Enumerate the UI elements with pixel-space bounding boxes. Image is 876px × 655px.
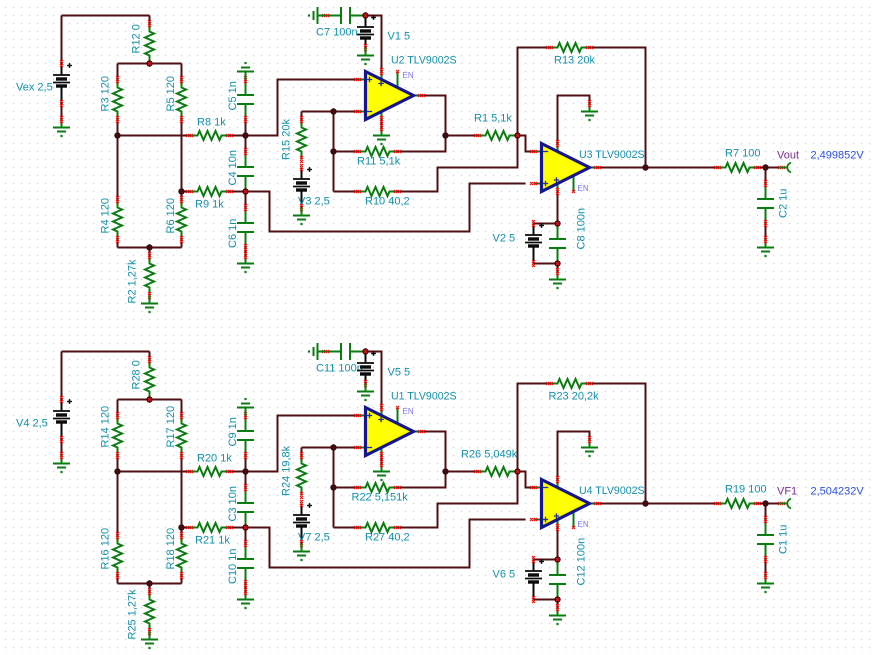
wire segment (245, 120, 247, 136)
wire segment (334, 527, 358, 529)
ground (inverted) (237, 62, 254, 80)
svg-text:R20 1k: R20 1k (197, 453, 232, 465)
svg-text:R28 0: R28 0 (131, 360, 143, 389)
junction bridge bottom node (146, 580, 152, 586)
wire opamp output (422, 96, 446, 136)
junction output filter node (762, 500, 768, 506)
wire segment (245, 248, 247, 256)
wire segment (181, 64, 183, 80)
svg-text:C8 100n: C8 100n (576, 208, 588, 250)
svg-text:C7 100n: C7 100n (316, 27, 358, 39)
resistor R17 (165, 406, 186, 459)
ground (53, 116, 70, 137)
wire segment (301, 448, 303, 456)
wire segment (334, 151, 358, 153)
junction output feedback node (642, 164, 648, 170)
op-amp U3 (530, 140, 645, 195)
op-amp U2 (354, 55, 457, 124)
wire feedback right (590, 48, 646, 168)
junction bridge bottom node (146, 244, 152, 250)
wire supply ground link (558, 432, 590, 480)
resistor R14 (100, 406, 123, 459)
wire feedback riser (333, 448, 335, 528)
wire segment (61, 16, 63, 64)
wire segment (61, 352, 63, 400)
junction filter node A (242, 132, 248, 138)
resistor R19 (714, 484, 767, 509)
junction decoupling top node (554, 220, 560, 226)
wire feedback riser (333, 112, 335, 192)
svg-text:R24 19,8k: R24 19,8k (281, 445, 293, 496)
wire segment (446, 135, 478, 137)
junction bridge right output (178, 188, 184, 194)
capacitor C4 (227, 148, 254, 192)
wire to -input (518, 472, 534, 488)
wire segment (557, 600, 559, 608)
junction second stage -input node (514, 132, 520, 138)
svg-text:C4 10n: C4 10n (227, 150, 239, 185)
capacitor C12 (549, 538, 588, 600)
junction decoupling bottom node (554, 596, 560, 602)
svg-text:R17 120: R17 120 (165, 406, 177, 448)
svg-text:C6 1n: C6 1n (227, 219, 239, 248)
svg-text:Vout: Vout (777, 150, 799, 162)
svg-text:C10 1n: C10 1n (227, 549, 239, 584)
wire bridge top rail (118, 399, 182, 401)
resistor R23 (546, 379, 599, 403)
wire segment (117, 64, 119, 80)
resistor R12 (131, 20, 155, 64)
wire segment (301, 112, 303, 120)
svg-text:R2 1,27k: R2 1,27k (127, 259, 139, 304)
voltage source V4 (16, 396, 72, 443)
capacitor C1 (757, 516, 790, 563)
ground (757, 236, 774, 257)
resistor R1 (474, 113, 518, 141)
wire segment (381, 456, 383, 464)
voltage source Vex (16, 60, 72, 107)
svg-text:C9 1n: C9 1n (227, 417, 239, 446)
op-amp U1 (354, 391, 457, 460)
wire segment (765, 560, 767, 576)
capacitor C2 (757, 180, 790, 227)
capacitor C7 (316, 7, 366, 39)
capacitor C8 (549, 208, 588, 264)
wire segment (230, 527, 246, 529)
svg-text:R27 40,2: R27 40,2 (365, 532, 410, 544)
wire positive supply (366, 16, 382, 72)
svg-text:EN: EN (403, 407, 414, 416)
junction bridge top node (146, 60, 152, 66)
junction supply node (362, 348, 368, 354)
capacitor C3 (227, 484, 254, 528)
wire segment (534, 559, 558, 561)
junction output feedback node (642, 500, 648, 506)
ground (581, 436, 598, 457)
wire bridge bottom rail (118, 247, 182, 249)
wire gain set link (398, 136, 518, 192)
voltage source V2 (493, 220, 544, 267)
wire segment (181, 192, 183, 200)
output pin Vout (777, 150, 864, 173)
wire segment (182, 527, 190, 529)
ground (rotated) (308, 343, 326, 360)
wire segment (334, 487, 358, 489)
svg-text:R4 120: R4 120 (100, 198, 112, 233)
capacitor C5 (227, 76, 254, 123)
resistor R28 (131, 356, 155, 400)
ground (549, 268, 566, 289)
wire segment (557, 192, 559, 224)
svg-text:R10 40,2: R10 40,2 (365, 196, 410, 208)
wire segment (230, 191, 246, 193)
svg-text:C3 10n: C3 10n (227, 486, 239, 521)
wire segment (182, 191, 190, 193)
svg-text:R3 120: R3 120 (100, 76, 112, 111)
svg-text:R13 20k: R13 20k (554, 55, 595, 67)
wire -input rail (302, 111, 358, 113)
resistor R4 (100, 196, 123, 243)
resistor R9 (186, 187, 233, 211)
svg-text:U3 TLV9002S: U3 TLV9002S (579, 149, 645, 161)
ground (581, 100, 598, 121)
wire segment (117, 456, 119, 472)
ground (549, 604, 566, 625)
svg-text:R21 1k: R21 1k (195, 535, 230, 547)
wire battery top to bridge (62, 351, 150, 353)
ground (rotated) (308, 7, 326, 24)
ground (53, 452, 70, 473)
capacitor C6 (227, 204, 254, 251)
op-amp U4 (530, 476, 645, 531)
wire bridge right column (181, 456, 183, 528)
wire segment (534, 223, 558, 225)
wire segment (181, 528, 183, 536)
svg-text:EN: EN (578, 520, 589, 529)
svg-text:2,504232V: 2,504232V (811, 486, 865, 498)
wire bridge right column (181, 120, 183, 192)
ground (357, 48, 374, 66)
svg-text:VF1: VF1 (777, 486, 797, 498)
wire output rail (598, 167, 718, 169)
junction filter node B (242, 524, 248, 530)
svg-text:R12 0: R12 0 (131, 24, 143, 53)
svg-text:C2 1u: C2 1u (778, 189, 790, 218)
wire segment (446, 471, 478, 473)
wire segment (765, 224, 767, 240)
svg-text:EN: EN (403, 71, 414, 80)
ground (141, 632, 158, 650)
resistor R18 (165, 528, 186, 579)
junction filter node A (242, 468, 248, 474)
wire segment (245, 136, 247, 152)
junction -input node (330, 444, 336, 450)
svg-text:V7 2,5: V7 2,5 (298, 532, 330, 544)
wire segment (765, 504, 767, 520)
wire segment (117, 240, 119, 248)
wire to second stage +input (246, 520, 526, 568)
resistor R7 (714, 148, 761, 173)
resistor R2 (127, 252, 155, 304)
junction feedback node (330, 484, 336, 490)
wire segment (149, 248, 151, 256)
resistor R25 (127, 588, 155, 640)
svg-text:U1 TLV9002S: U1 TLV9002S (391, 391, 457, 403)
wire battery minus to ground (61, 440, 63, 456)
junction second stage -input node (514, 468, 520, 474)
junction bridge right output (178, 524, 184, 530)
svg-text:R18 120: R18 120 (165, 528, 177, 570)
svg-text:R15 20k: R15 20k (281, 119, 293, 160)
svg-text:V3 2,5: V3 2,5 (298, 196, 330, 208)
svg-text:C12 100n: C12 100n (576, 538, 588, 586)
resistor R3 (100, 76, 123, 123)
wire bridge left mid rail (118, 471, 190, 473)
svg-text:C1 1u: C1 1u (778, 525, 790, 554)
resistor R13 (546, 43, 595, 67)
capacitor C9 (227, 412, 254, 459)
wire segment (181, 400, 183, 416)
wire segment (181, 576, 183, 584)
wire output rail (598, 503, 718, 505)
voltage source V3 (293, 164, 330, 211)
wire gain set link (398, 472, 518, 528)
ground (293, 544, 310, 562)
svg-text:V6 5: V6 5 (493, 569, 516, 581)
wire segment (398, 136, 446, 152)
wire segment (245, 456, 247, 472)
resistor R15 (281, 116, 307, 163)
wire segment (230, 471, 246, 473)
ground (757, 572, 774, 593)
svg-text:Vex 2,5: Vex 2,5 (16, 82, 53, 94)
wire segment (758, 167, 782, 169)
junction -input node (330, 108, 336, 114)
wire supply ground link (558, 96, 590, 144)
resistor R10 (354, 187, 410, 208)
wire segment (381, 120, 383, 128)
wire segment (117, 400, 119, 416)
resistor R6 (165, 196, 186, 243)
resistor R11 (354, 147, 401, 168)
svg-text:R25 1,27k: R25 1,27k (127, 589, 139, 640)
ground (373, 460, 390, 481)
wire segment (245, 472, 247, 488)
svg-text:V2 5: V2 5 (493, 233, 516, 245)
wire segment (557, 528, 559, 560)
junction decoupling top node (554, 556, 560, 562)
svg-text:U4 TLV9002S: U4 TLV9002S (579, 485, 645, 497)
wire segment (245, 528, 247, 544)
wire segment (765, 168, 767, 184)
ground (293, 208, 310, 226)
junction bridge left output (114, 468, 120, 474)
svg-text:R5 120: R5 120 (165, 76, 177, 111)
wire bridge left column (117, 472, 119, 536)
wire segment (557, 264, 559, 272)
resistor R8 (186, 117, 233, 141)
wire bridge bottom rail (118, 583, 182, 585)
svg-text:R8 1k: R8 1k (197, 117, 226, 129)
junction output filter node (762, 164, 768, 170)
ground (141, 296, 158, 314)
svg-text:R9 1k: R9 1k (195, 199, 224, 211)
svg-text:R26 5,049k: R26 5,049k (461, 449, 518, 461)
svg-text:V4 2,5: V4 2,5 (16, 418, 48, 430)
ground (357, 384, 374, 402)
junction first stage output (442, 468, 448, 474)
resistor R5 (165, 76, 186, 123)
wire bridge top rail (118, 63, 182, 65)
resistor R27 (354, 523, 410, 544)
wire feedback loop (518, 48, 550, 136)
wire bridge left column (117, 136, 119, 200)
junction first stage output (442, 132, 448, 138)
wire feedback right (590, 384, 646, 504)
wire segment (149, 352, 151, 360)
resistor R26 (461, 449, 518, 477)
junction feedback node (330, 148, 336, 154)
ground (237, 252, 254, 273)
svg-text:V1 5: V1 5 (388, 31, 411, 43)
svg-text:C11 100n: C11 100n (316, 363, 363, 375)
voltage source V7 (293, 500, 330, 547)
svg-text:2,499852V: 2,499852V (811, 150, 865, 162)
svg-text:V5 5: V5 5 (388, 367, 411, 379)
ground (373, 124, 390, 145)
junction supply node (362, 12, 368, 18)
svg-text:R14 120: R14 120 (100, 406, 112, 448)
output pin VF1 (777, 486, 864, 509)
voltage source V5 (357, 351, 410, 387)
wire segment (534, 263, 558, 265)
wire segment (334, 191, 358, 193)
wire segment (758, 503, 782, 505)
voltage source V1 (357, 15, 410, 51)
resistor R16 (100, 528, 123, 579)
wire segment (245, 584, 247, 592)
wire segment (245, 192, 247, 208)
wire segment (149, 16, 151, 24)
wire -input rail (302, 447, 358, 449)
svg-text:R19 100: R19 100 (725, 484, 767, 496)
wire segment (117, 120, 119, 136)
wire feedback loop (518, 384, 550, 472)
svg-text:R22 5,151k: R22 5,151k (352, 492, 409, 504)
svg-text:R6 120: R6 120 (165, 198, 177, 233)
wire segment (149, 584, 151, 592)
wire bridge left mid rail (118, 135, 190, 137)
ground (237, 588, 254, 609)
svg-text:R23 20,2k: R23 20,2k (549, 391, 600, 403)
junction decoupling bottom node (554, 260, 560, 266)
resistor R20 (186, 453, 233, 477)
wire segment (398, 472, 446, 488)
svg-text:EN: EN (578, 184, 589, 193)
wire to opamp +input (246, 416, 358, 472)
resistor R22 (352, 483, 409, 504)
junction bridge top node (146, 396, 152, 402)
wire to -input (518, 136, 534, 152)
svg-text:C5 1n: C5 1n (227, 81, 239, 110)
wire battery minus to ground (61, 104, 63, 120)
svg-text:R11 5,1k: R11 5,1k (357, 156, 401, 168)
svg-text:R16 120: R16 120 (100, 528, 112, 570)
capacitor C11 (316, 343, 366, 375)
svg-text:R7 100: R7 100 (725, 148, 760, 160)
resistor R24 (281, 445, 307, 499)
junction bridge left output (114, 132, 120, 138)
wire to opamp +input (246, 80, 358, 136)
capacitor C10 (227, 540, 254, 587)
svg-text:U2 TLV9002S: U2 TLV9002S (391, 55, 457, 67)
resistor R21 (186, 523, 233, 547)
wire segment (230, 135, 246, 137)
ground (inverted) (237, 398, 254, 416)
wire battery top to bridge (62, 15, 150, 17)
svg-text:R1 5,1k: R1 5,1k (474, 113, 512, 125)
wire segment (117, 576, 119, 584)
wire segment (534, 599, 558, 601)
wire to second stage +input (246, 184, 526, 232)
voltage source V6 (493, 556, 544, 603)
wire opamp output (422, 432, 446, 472)
wire positive supply (366, 352, 382, 408)
wire segment (181, 240, 183, 248)
junction filter node B (242, 188, 248, 194)
